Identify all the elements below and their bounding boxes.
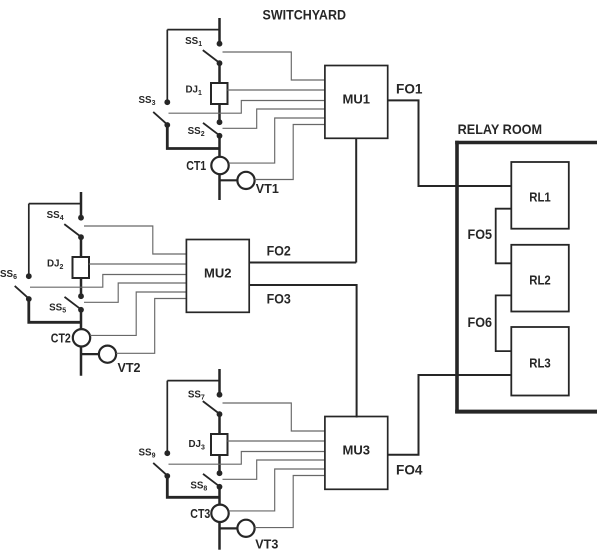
wire SS2 to MU1 (223, 109, 325, 128)
wire busbar feeder bay2 (80, 192, 83, 218)
relay room top border (455, 141, 597, 145)
disconnector SS2 (203, 123, 222, 139)
wire FO3 MU2 to MU3 (249, 285, 356, 418)
wire SS5 to bottom bay2 (80, 310, 83, 376)
wire DJ1 to node bay1 (218, 104, 221, 122)
wire SS5 to MU2 (84, 283, 186, 302)
wire bypass return bay2 (29, 299, 81, 322)
wire SS1 to DJ1 (218, 63, 221, 83)
wire busbar feeder bay3 (218, 369, 221, 395)
disconnector SS7 (203, 392, 223, 417)
wire VT1 to MU1 (255, 125, 325, 180)
merging unit MU2 (186, 240, 249, 313)
svg-text:SWITCHYARD: SWITCHYARD (263, 8, 347, 23)
wire VT3 stub (220, 527, 238, 529)
CT CT2 (73, 329, 90, 346)
wire CT1 to MU1 (229, 118, 325, 163)
svg-text:VT3: VT3 (255, 537, 278, 552)
wire bypass left bay1 (166, 30, 168, 103)
wire FO1 MU1 to RL1 (388, 100, 512, 186)
svg-text:CT1: CT1 (186, 158, 206, 173)
wire bypass top bay1 (167, 29, 219, 31)
wire SS3 to MU1 (169, 101, 325, 114)
wire DJ3 to node bay3 (218, 455, 221, 473)
wire SS8 to bottom bay3 (218, 487, 221, 550)
wire SS8 to MU3 (223, 460, 325, 479)
VT VT1 (237, 172, 254, 189)
relay RL2 (511, 245, 569, 312)
svg-text:FO6: FO6 (468, 314, 493, 330)
wire DJ1 to MU1 (227, 89, 325, 91)
wire bypass left bay3 (166, 381, 168, 454)
svg-text:RELAY ROOM: RELAY ROOM (458, 121, 542, 137)
wire SS9 to MU3 (169, 452, 325, 465)
disconnector SS8 (203, 474, 222, 490)
wire bypass left bay2 (28, 204, 30, 277)
svg-text:VT2: VT2 (118, 360, 141, 375)
merging unit MU3 (325, 417, 388, 490)
relay RL3 (511, 327, 569, 396)
junction node bay2 (78, 293, 84, 299)
svg-text:FO3: FO3 (267, 291, 291, 307)
disconnector SS5 (65, 297, 84, 313)
junction node bay1 (217, 119, 223, 125)
wire DJ2 to node bay2 (80, 278, 83, 296)
svg-text:MU3: MU3 (343, 443, 371, 457)
wire VT2 stub (81, 353, 99, 355)
svg-text:CT2: CT2 (51, 330, 71, 345)
wire CT3 to MU3 (229, 469, 325, 511)
disconnector SS4 (64, 215, 84, 240)
breaker DJ3 (211, 434, 228, 455)
wire SS1 to MU1 (223, 52, 325, 80)
VT VT2 (99, 346, 116, 363)
junction node bay3 (217, 470, 223, 476)
wire VT1 stub (220, 179, 238, 181)
wire MU1 process link (355, 138, 357, 262)
svg-text:RL3: RL3 (529, 356, 551, 371)
disconnector SS6 (15, 273, 32, 302)
merging unit MU1 (325, 66, 388, 139)
svg-text:FO4: FO4 (396, 462, 423, 478)
svg-text:MU1: MU1 (343, 92, 371, 106)
wire DJ2 to MU2 (89, 263, 187, 265)
breaker DJ2 (73, 257, 90, 278)
wire CT2 to MU2 (90, 292, 186, 335)
svg-text:FO2: FO2 (267, 242, 291, 258)
svg-text:RL2: RL2 (529, 272, 551, 287)
disconnector SS3 (153, 99, 170, 128)
wire FO2 MU2 to MU1 (249, 262, 356, 264)
wire DJ3 to MU3 (227, 440, 325, 442)
wire SS7 to MU3 (223, 403, 325, 431)
wire VT3 to MU3 (255, 476, 325, 528)
wire bypass return bay1 (167, 125, 219, 149)
svg-text:CT3: CT3 (190, 506, 210, 521)
VT VT3 (237, 520, 254, 537)
svg-text:RL1: RL1 (529, 189, 551, 204)
wire FO6 RL2 to RL3 (496, 295, 512, 351)
CT CT1 (211, 157, 228, 174)
relay room bottom border (455, 410, 597, 414)
wire SS2 to bottom bay1 (218, 136, 221, 200)
wire FO4 MU3 to RL3 (388, 375, 511, 455)
wire FO5 RL1 to RL2 (496, 209, 512, 264)
relay RL1 (511, 162, 569, 229)
breaker DJ1 (211, 83, 228, 104)
wire busbar feeder bay1 (218, 18, 221, 44)
CT CT3 (211, 505, 228, 522)
wire bypass top bay2 (29, 203, 81, 205)
relay room left border (455, 141, 459, 414)
wire SS4 to DJ2 (80, 237, 83, 257)
svg-text:FO5: FO5 (468, 226, 493, 242)
disconnector SS9 (153, 450, 170, 479)
disconnector SS1 (203, 41, 223, 66)
wire VT2 to MU2 (116, 299, 186, 354)
wire bypass top bay3 (167, 380, 219, 382)
wire SS7 to DJ3 (218, 414, 221, 434)
svg-text:MU2: MU2 (204, 266, 232, 280)
wire SS6 to MU2 (30, 275, 186, 288)
wire bypass return bay3 (167, 476, 219, 497)
svg-text:FO1: FO1 (396, 81, 423, 97)
wire SS4 to MU2 (84, 226, 186, 254)
svg-text:VT1: VT1 (256, 181, 279, 196)
